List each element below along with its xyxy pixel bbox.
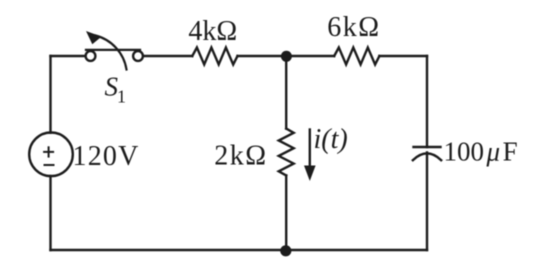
- svg-text:100μF: 100μF: [444, 137, 518, 167]
- svg-text:2kΩ: 2kΩ: [214, 141, 267, 172]
- svg-text:120V: 120V: [73, 141, 140, 172]
- svg-text:6kΩ: 6kΩ: [327, 12, 380, 43]
- svg-text:4kΩ: 4kΩ: [188, 16, 237, 47]
- svg-text:i(t): i(t): [314, 124, 348, 155]
- svg-text:1: 1: [117, 87, 126, 107]
